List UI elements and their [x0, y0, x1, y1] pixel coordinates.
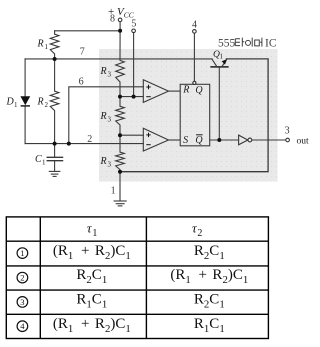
svg-text:R1C1: R1C1	[194, 316, 225, 335]
svg-text:3: 3	[108, 115, 112, 123]
svg-text:R2C1: R2C1	[194, 243, 225, 262]
svg-text:1: 1	[42, 159, 46, 167]
svg-text:1: 1	[220, 54, 223, 61]
svg-text:5: 5	[131, 18, 136, 29]
svg-text:555: 555	[218, 37, 236, 49]
svg-text:C: C	[35, 154, 42, 165]
svg-text:R: R	[100, 156, 107, 167]
svg-text:IC: IC	[265, 37, 277, 49]
svg-text:R2C1: R2C1	[194, 292, 225, 311]
svg-text:3: 3	[285, 126, 290, 137]
svg-text:6: 6	[79, 76, 84, 87]
svg-text:R2C1: R2C1	[76, 267, 107, 286]
svg-text:(R1+R2)C1: (R1+R2)C1	[53, 243, 131, 262]
svg-text:4: 4	[192, 19, 197, 30]
svg-text:R: R	[100, 111, 107, 122]
svg-text:1: 1	[14, 101, 18, 109]
svg-text:R: R	[37, 39, 44, 50]
svg-text:R: R	[100, 66, 107, 77]
svg-text:1: 1	[111, 185, 116, 196]
svg-text:Q: Q	[195, 85, 203, 96]
svg-text:τ2: τ2	[192, 221, 202, 239]
svg-text:2: 2	[87, 134, 92, 145]
svg-text:1: 1	[20, 248, 24, 258]
svg-text:4: 4	[20, 321, 25, 331]
svg-text:8: 8	[110, 14, 115, 25]
svg-text:out: out	[297, 136, 310, 146]
svg-text:(R1+R2)C1: (R1+R2)C1	[53, 316, 131, 335]
svg-text:(R1+R2)C1: (R1+R2)C1	[170, 267, 248, 286]
svg-text:S: S	[183, 135, 188, 146]
svg-text:τ1: τ1	[87, 221, 97, 239]
svg-text:2: 2	[20, 273, 24, 283]
svg-text:2: 2	[45, 101, 49, 109]
svg-text:R: R	[182, 85, 189, 96]
svg-text:3: 3	[108, 160, 112, 168]
svg-text:Q: Q	[195, 135, 203, 146]
svg-text:R: R	[37, 97, 44, 108]
svg-text:3: 3	[108, 70, 112, 78]
svg-text:R1C1: R1C1	[76, 292, 107, 311]
svg-text:7: 7	[80, 46, 85, 57]
svg-text:1: 1	[45, 43, 49, 51]
svg-text:3: 3	[20, 297, 24, 307]
